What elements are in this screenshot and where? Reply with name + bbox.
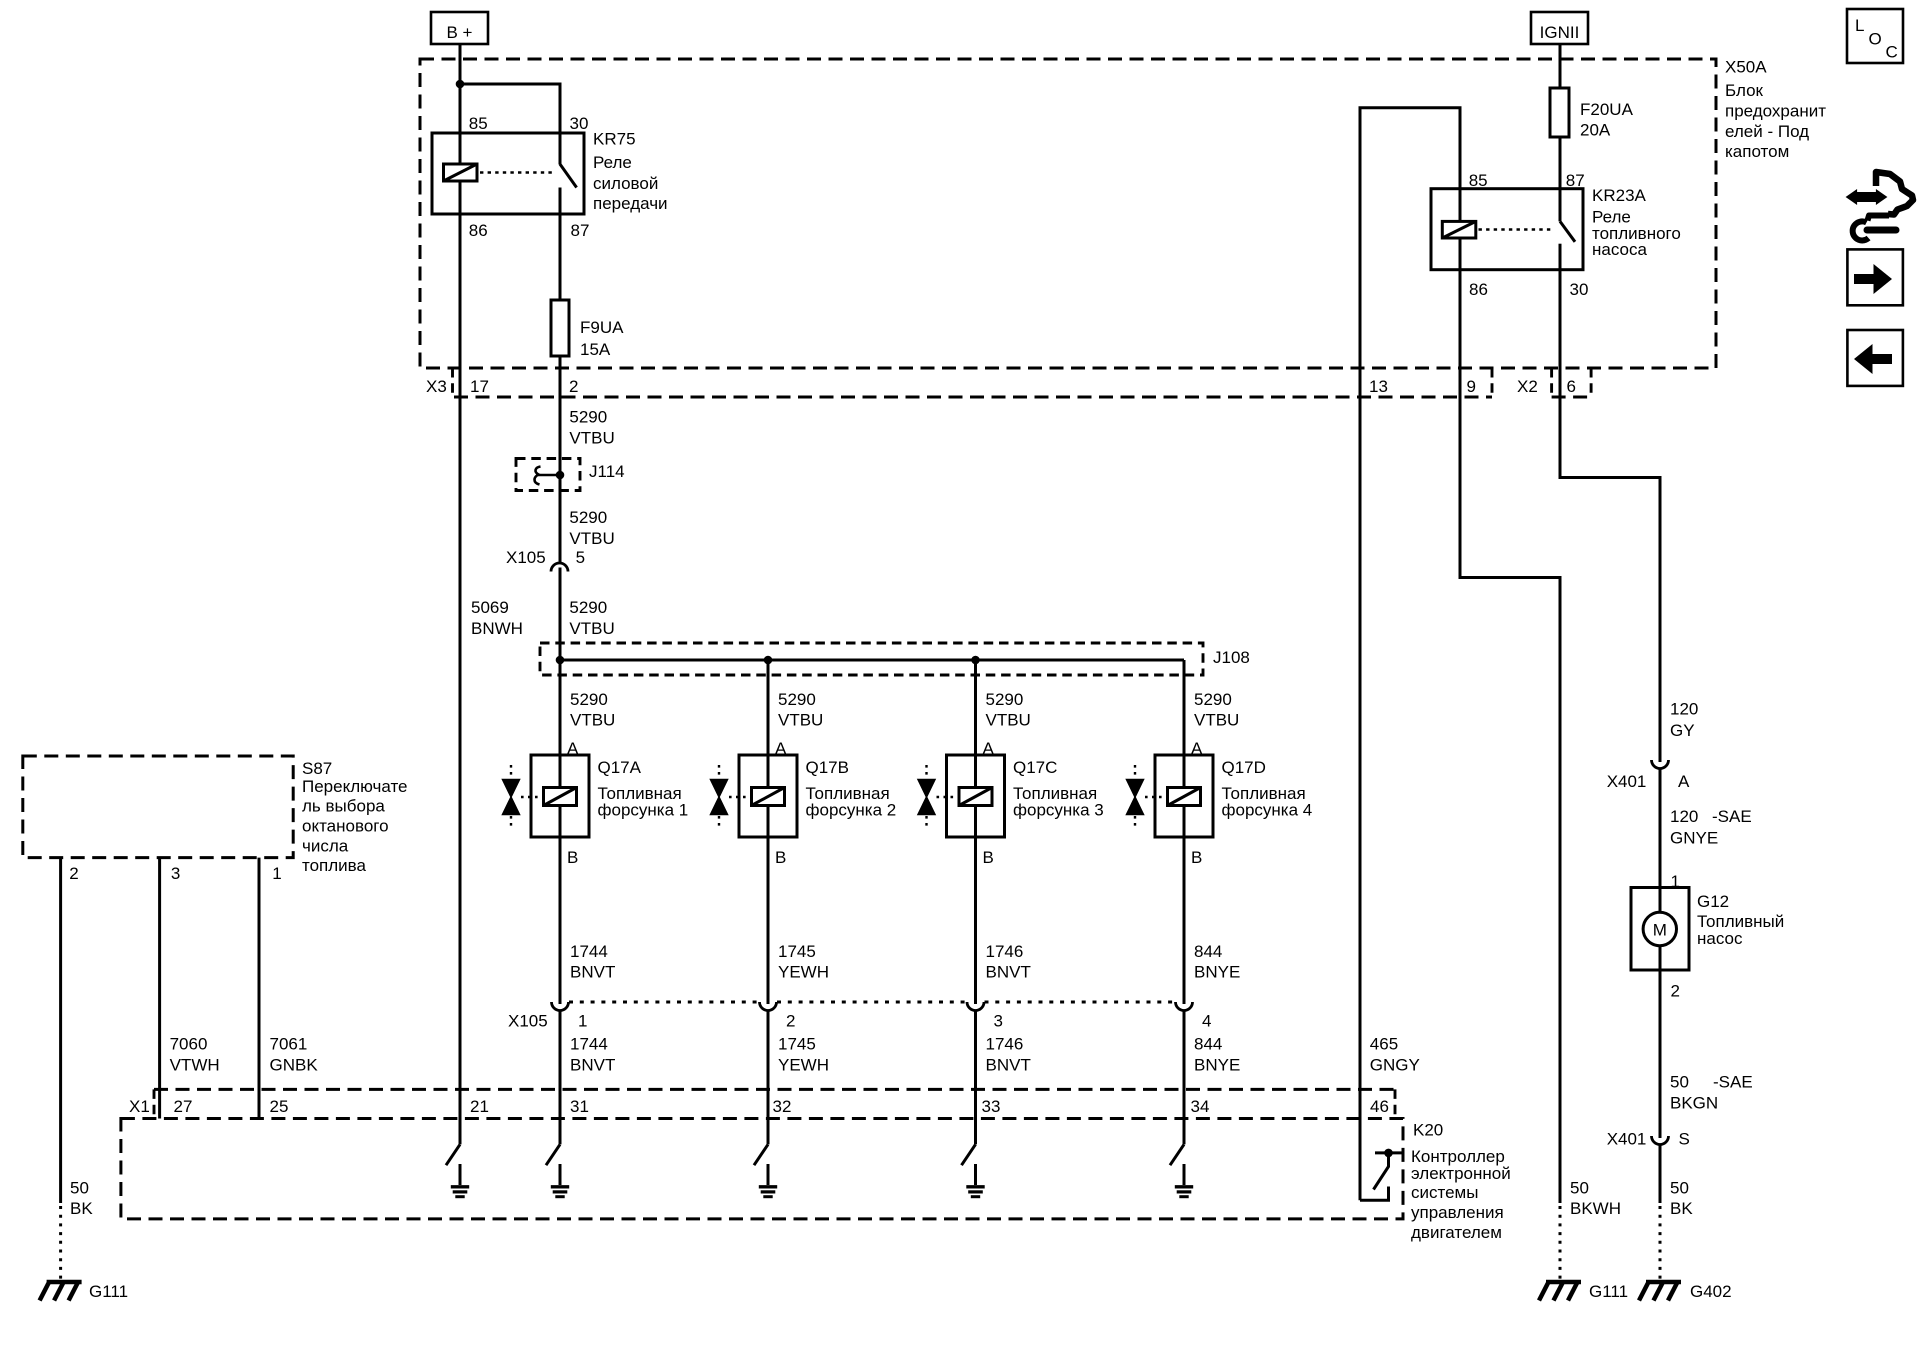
wire X105 pin 2 down to X1 pin 32 into K20 — [767, 1011, 770, 1145]
svg-text:X2: X2 — [1517, 377, 1538, 396]
wire label 465 GNGY — [1370, 1035, 1420, 1075]
Q17B description — [806, 784, 897, 820]
svg-text:2: 2 — [786, 1012, 795, 1031]
controller K20 dashed box — [121, 1119, 1403, 1219]
svg-text:5290: 5290 — [1194, 690, 1232, 709]
svg-text:BNVT: BNVT — [570, 1056, 615, 1075]
svg-text:насоса: насоса — [1592, 240, 1647, 259]
Q17D description — [1222, 784, 1313, 820]
svg-text:33: 33 — [982, 1097, 1001, 1116]
K20 internal ground symbol (x=560) — [551, 1187, 569, 1197]
svg-text:O: O — [1869, 30, 1882, 49]
wire injector Q17C pin B down to X105 — [974, 806, 977, 1005]
svg-text:B +: B + — [447, 23, 473, 42]
svg-text:G111: G111 — [1589, 1282, 1628, 1301]
wire label 1746 BNVT (below X105) — [986, 1035, 1031, 1075]
K20 internal ground symbol (x=460) — [451, 1187, 469, 1197]
S87 description — [302, 777, 408, 875]
wire IGNII down to fuse F20UA — [1559, 44, 1562, 88]
wire X105 pin 1 down to X1 pin 31 into K20 — [559, 1011, 562, 1145]
svg-text:1744: 1744 — [570, 942, 608, 961]
wire label 7061 GNBK — [270, 1035, 319, 1075]
svg-text:5290: 5290 — [569, 598, 607, 617]
svg-text:форсунка 1: форсунка 1 — [598, 801, 689, 820]
svg-text:13: 13 — [1369, 377, 1388, 396]
connector X3 left tick — [451, 368, 454, 397]
forward arrow box — [1847, 249, 1903, 305]
K20 internal ground symbol (x=1184) — [1175, 1187, 1193, 1197]
dotted wire to ground G111 (left) — [59, 1206, 62, 1279]
svg-text:1: 1 — [578, 1012, 587, 1031]
wire J108 to injector Q17B pin A — [767, 660, 770, 788]
svg-text:форсунка 4: форсунка 4 — [1222, 801, 1313, 820]
X105 connector face dotted line — [569, 1001, 1175, 1004]
svg-text:BNVT: BNVT — [570, 962, 615, 981]
wire label 844 BNYE (above X105) — [1194, 942, 1240, 981]
svg-text:87: 87 — [571, 221, 590, 240]
wire J108 bus — [560, 659, 1184, 662]
svg-text:BKGN: BKGN — [1670, 1094, 1718, 1113]
svg-text:X3: X3 — [426, 377, 447, 396]
wire S87 pin 2 to ground G111 — [59, 858, 62, 1203]
K20 internal switch to ground (x=768) — [754, 1144, 768, 1185]
wire label 844 BNYE (below X105) — [1194, 1035, 1240, 1075]
svg-text:27: 27 — [174, 1097, 193, 1116]
wire injector Q17B pin B down to X105 — [767, 806, 770, 1005]
svg-text:BNYE: BNYE — [1194, 1056, 1240, 1075]
fuse block X50A (underhood) dashed outline — [420, 59, 1716, 368]
svg-text:BK: BK — [70, 1199, 93, 1218]
relay KR23A switch arm — [1560, 221, 1575, 241]
svg-text:30: 30 — [1570, 280, 1589, 299]
svg-text:21: 21 — [470, 1097, 489, 1116]
svg-text:5290: 5290 — [569, 408, 607, 427]
svg-text:B: B — [567, 848, 578, 867]
wire J108 to injector Q17C pin A — [974, 660, 977, 788]
svg-text:VTBU: VTBU — [570, 710, 615, 729]
svg-text:BNVT: BNVT — [986, 1056, 1031, 1075]
inline connector X105 pin 4 (arc) — [1176, 1002, 1193, 1011]
wire label 5290 VTBU (above J114) — [569, 408, 614, 448]
K20 internal switch to ground (x=560) — [546, 1144, 560, 1185]
wire KR75 pin 87 down to fuse F9UA — [559, 188, 562, 301]
svg-text:K20: K20 — [1413, 1121, 1443, 1140]
svg-text:Блок: Блок — [1725, 81, 1764, 100]
svg-text:46: 46 — [1370, 1097, 1389, 1116]
KR75 description — [593, 153, 668, 213]
fuel injector Q17C — [918, 755, 1005, 837]
svg-text:X401: X401 — [1607, 772, 1647, 791]
ground G111 (right) — [1539, 1282, 1581, 1301]
dotted wire to ground G111 (right) — [1559, 1206, 1562, 1279]
svg-text:32: 32 — [773, 1097, 792, 1116]
svg-text:VTBU: VTBU — [569, 429, 614, 448]
inline connector X105 pin 1 (arc) — [552, 1002, 569, 1011]
svg-text:GNYE: GNYE — [1670, 829, 1718, 848]
svg-text:50: 50 — [1570, 1179, 1589, 1198]
svg-text:VTBU: VTBU — [778, 710, 823, 729]
svg-text:7060: 7060 — [170, 1035, 208, 1054]
relay KR23A coil-to-switch dotted link — [1479, 228, 1553, 231]
fuse F9UA — [551, 300, 569, 356]
wire X3 pin 13 down to K20 pin 46 — [1359, 368, 1362, 1200]
svg-text:50: 50 — [1670, 1073, 1689, 1092]
svg-text:844: 844 — [1194, 1035, 1222, 1054]
svg-text:17: 17 — [470, 377, 489, 396]
wire KR23A pin 86 down through X3 pin 9, jog right, down to ground — [1460, 238, 1560, 1203]
svg-text:капотом: капотом — [1725, 142, 1789, 161]
svg-text:3: 3 — [994, 1012, 1003, 1031]
svg-text:M: M — [1653, 921, 1667, 940]
svg-text:85: 85 — [1469, 171, 1488, 190]
wire X105 pin 3 down to X1 pin 33 into K20 — [974, 1011, 977, 1145]
wire label 7060 VTWH — [170, 1035, 220, 1075]
svg-text:2: 2 — [1671, 982, 1680, 1001]
relay KR75 coil-to-switch dotted link — [480, 171, 552, 174]
inline connector X401 pin A (arc) — [1652, 760, 1669, 769]
K20 internal switch to ground (x=1184) — [1170, 1144, 1184, 1185]
ground G111 (left) — [40, 1282, 82, 1301]
harness navigation icon — [1846, 172, 1913, 240]
svg-text:GY: GY — [1670, 721, 1695, 740]
svg-text:85: 85 — [469, 114, 488, 133]
wire label 1744 BNVT (above X105) — [570, 942, 615, 981]
relay KR23A box — [1431, 189, 1583, 270]
splice J108 dashed box — [540, 643, 1203, 675]
svg-text:Переключате: Переключате — [302, 777, 408, 796]
svg-text:предохранит: предохранит — [1725, 102, 1826, 121]
svg-text:силовой: силовой — [593, 174, 658, 193]
svg-text:F9UA: F9UA — [580, 318, 624, 337]
svg-text:ль выбора: ль выбора — [302, 797, 385, 816]
relay KR23A coil — [1442, 221, 1476, 238]
wire injector Q17D pin B down to X105 — [1183, 806, 1186, 1005]
svg-text:1: 1 — [272, 864, 281, 883]
svg-text:YEWH: YEWH — [778, 1056, 829, 1075]
svg-text:15A: 15A — [580, 340, 611, 359]
svg-text:X105: X105 — [506, 548, 546, 567]
wire label 5290 VTBU (above J108) — [569, 598, 614, 638]
junction dot J108 at injector 1 — [556, 656, 565, 665]
svg-text:86: 86 — [1469, 280, 1488, 299]
svg-text:GNGY: GNGY — [1370, 1056, 1420, 1075]
svg-text:120: 120 — [1670, 700, 1698, 719]
svg-text:1746: 1746 — [986, 942, 1024, 961]
svg-text:J114: J114 — [589, 462, 625, 481]
svg-text:34: 34 — [1191, 1097, 1210, 1116]
connector X2 box — [1552, 368, 1592, 397]
svg-text:5290: 5290 — [569, 508, 607, 527]
connector strip X1 top line — [154, 1088, 1395, 1091]
splice J114 symbol — [535, 467, 565, 485]
wire label 5290 VTBU (injector Q17D) — [1194, 690, 1239, 729]
svg-text:31: 31 — [570, 1097, 589, 1116]
svg-text:5069: 5069 — [471, 598, 509, 617]
svg-text:5290: 5290 — [778, 690, 816, 709]
relay KR75 coil — [444, 164, 478, 181]
svg-text:3: 3 — [171, 864, 180, 883]
Q17A description — [598, 784, 689, 820]
svg-text:октанового: октанового — [302, 817, 389, 836]
svg-text:1745: 1745 — [778, 942, 816, 961]
svg-text:465: 465 — [1370, 1035, 1398, 1054]
svg-text:насос: насос — [1697, 929, 1743, 948]
svg-text:BNYE: BNYE — [1194, 962, 1240, 981]
svg-text:YEWH: YEWH — [778, 962, 829, 981]
wire label 120 GY — [1670, 700, 1698, 741]
svg-text:Реле: Реле — [593, 153, 632, 172]
wire label 50 BKGN -SAE — [1670, 1073, 1753, 1113]
switch S87 dashed box (octane selector) — [23, 756, 293, 858]
wire X105 pin 4 down to X1 pin 34 into K20 — [1183, 1011, 1186, 1145]
wire label 5290 VTBU (injector Q17B) — [778, 690, 823, 729]
svg-text:Q17B: Q17B — [806, 758, 849, 777]
svg-text:двигателем: двигателем — [1411, 1223, 1502, 1242]
svg-text:BNVT: BNVT — [986, 962, 1031, 981]
svg-text:1745: 1745 — [778, 1035, 816, 1054]
wire KR23A pin 30 down through X2 pin 6, jog right to fuel pump feed — [1560, 270, 1660, 762]
svg-text:B: B — [1191, 848, 1202, 867]
K20 internal ground symbol (x=975.5) — [966, 1187, 984, 1197]
K20 internal ground symbol (x=768) — [759, 1187, 777, 1197]
svg-text:50: 50 — [1670, 1179, 1689, 1198]
svg-text:S87: S87 — [302, 759, 332, 778]
svg-text:5290: 5290 — [986, 690, 1024, 709]
fuse F20UA — [1550, 88, 1569, 137]
svg-text:F20UA: F20UA — [1580, 100, 1634, 119]
svg-text:2: 2 — [69, 864, 78, 883]
wire label 1745 YEWH (above X105) — [778, 942, 829, 981]
svg-text:1744: 1744 — [570, 1035, 608, 1054]
svg-text:1746: 1746 — [986, 1035, 1024, 1054]
dotted wire to ground G402 — [1659, 1206, 1662, 1279]
power node B+ — [431, 12, 488, 44]
wire injector Q17A pin B down to X105 — [559, 806, 562, 1005]
svg-text:6: 6 — [1567, 377, 1576, 396]
wire J108 to injector Q17D pin A — [1183, 660, 1186, 788]
wire label 50 BK (right) — [1670, 1179, 1693, 1219]
LOC legend box — [1847, 9, 1903, 63]
svg-text:50: 50 — [70, 1179, 89, 1198]
power node IGNII — [1531, 12, 1588, 44]
svg-text:C: C — [1886, 43, 1898, 62]
K20 fuel pump relay driver switch (pin 46) — [1360, 1149, 1403, 1201]
svg-text:-SAE: -SAE — [1713, 1073, 1753, 1092]
svg-text:Q17D: Q17D — [1222, 758, 1266, 777]
svg-text:9: 9 — [1467, 377, 1476, 396]
svg-text:L: L — [1855, 16, 1864, 35]
wire label 50 BKWH — [1570, 1179, 1621, 1219]
svg-text:форсунка 2: форсунка 2 — [806, 801, 897, 820]
svg-text:X105: X105 — [508, 1012, 548, 1031]
svg-text:VTBU: VTBU — [569, 529, 614, 548]
inline connector X105 pin 2 (arc) — [760, 1002, 777, 1011]
connector X1 right tick — [1394, 1089, 1397, 1118]
ground G402 — [1639, 1282, 1681, 1301]
svg-text:Q17C: Q17C — [1013, 758, 1057, 777]
wire X401 A to fuel pump G12 — [1659, 769, 1662, 914]
svg-text:4: 4 — [1202, 1012, 1211, 1031]
svg-text:передачи: передачи — [593, 194, 668, 213]
svg-text:J108: J108 — [1213, 648, 1250, 667]
svg-text:X1: X1 — [129, 1097, 150, 1116]
wire label 5290 VTBU (injector Q17C) — [986, 690, 1031, 729]
inline connector X105 pin 3 (arc) — [967, 1002, 984, 1011]
relay KR75 switch arm — [560, 164, 577, 187]
wire label 1744 BNVT (below X105) — [570, 1035, 615, 1075]
fuel injector Q17B — [711, 755, 798, 837]
inline connector X105 pin 5 (arc) — [551, 563, 568, 571]
K20 internal switch to ground (x=975.5) — [962, 1144, 976, 1185]
svg-text:87: 87 — [1566, 171, 1585, 190]
wire F20UA to KR23A pin 87 — [1559, 137, 1562, 221]
relay KR75 pin 87 stub — [559, 188, 562, 215]
relay KR23A pin 30 stub — [1559, 244, 1562, 270]
wire F9UA down through X3 pin 2 to X105 pin 5 — [559, 356, 562, 564]
svg-text:управления: управления — [1411, 1203, 1504, 1222]
inline connector X401 pin S (arc) — [1652, 1136, 1669, 1145]
svg-text:системы: системы — [1411, 1183, 1478, 1202]
svg-text:A: A — [1678, 772, 1690, 791]
connector X1 left tick — [153, 1089, 156, 1118]
wire X401 S down to ground G402 — [1659, 1145, 1662, 1204]
svg-text:электронной: электронной — [1411, 1164, 1511, 1183]
X50A description text — [1725, 81, 1826, 161]
svg-text:X401: X401 — [1607, 1130, 1647, 1149]
connector strip X3 bottom line — [454, 396, 1492, 399]
K20 description — [1411, 1147, 1511, 1242]
svg-text:Q17A: Q17A — [598, 758, 642, 777]
svg-text:BKWH: BKWH — [1570, 1199, 1621, 1218]
junction dot J108 at injector 3 — [971, 656, 980, 665]
svg-text:топлива: топлива — [302, 856, 367, 875]
fuel pump G12 — [1631, 888, 1689, 971]
Q17C description — [1013, 784, 1104, 820]
junction dot on B+ wire — [456, 80, 465, 89]
svg-text:5: 5 — [576, 548, 585, 567]
back arrow box — [1847, 330, 1903, 386]
wire label 5290 VTBU (below J114) — [569, 508, 614, 548]
wire label 50 BK (left) — [70, 1179, 93, 1219]
svg-text:G111: G111 — [89, 1282, 128, 1301]
connector X3 right tick — [1491, 368, 1494, 397]
wire B+ down to KR75 coil (pin 85) — [459, 44, 462, 164]
wire S87 pin 3 to X1 pin 27 — [158, 858, 161, 1119]
svg-text:BNWH: BNWH — [471, 619, 523, 638]
svg-text:5290: 5290 — [570, 690, 608, 709]
svg-text:VTBU: VTBU — [1194, 710, 1239, 729]
G12 description — [1697, 912, 1784, 948]
svg-text:-SAE: -SAE — [1712, 807, 1752, 826]
svg-text:VTBU: VTBU — [986, 710, 1031, 729]
svg-text:86: 86 — [469, 221, 488, 240]
svg-text:KR75: KR75 — [593, 130, 636, 149]
svg-text:G12: G12 — [1697, 892, 1729, 911]
svg-text:G402: G402 — [1690, 1282, 1732, 1301]
svg-text:IGNII: IGNII — [1540, 23, 1580, 42]
svg-text:X50A: X50A — [1725, 58, 1767, 77]
svg-text:30: 30 — [570, 114, 589, 133]
relay KR75 box — [432, 133, 584, 214]
wire S87 pin 1 to X1 pin 25 — [258, 858, 261, 1119]
svg-text:елей - Под: елей - Под — [1725, 122, 1809, 141]
wire label 120 GNYE -SAE — [1670, 807, 1752, 848]
wire branch from junction to KR75 pin 30 — [460, 84, 560, 165]
KR23A description — [1592, 208, 1681, 260]
svg-text:VTWH: VTWH — [170, 1056, 220, 1075]
svg-text:BK: BK — [1670, 1199, 1693, 1218]
svg-text:B: B — [775, 848, 786, 867]
splice J114 dashed box — [516, 459, 580, 491]
fuel injector Q17A — [503, 755, 590, 837]
wire label 1746 BNVT (above X105) — [986, 942, 1031, 981]
svg-text:2: 2 — [569, 377, 578, 396]
svg-text:числа: числа — [302, 837, 349, 856]
fuel injector Q17D — [1127, 755, 1214, 837]
K20 internal switch to ground (x=460) — [446, 1144, 460, 1185]
svg-text:120: 120 — [1670, 807, 1698, 826]
svg-text:7061: 7061 — [270, 1035, 308, 1054]
svg-text:B: B — [983, 848, 994, 867]
svg-text:GNBK: GNBK — [270, 1056, 319, 1075]
svg-text:S: S — [1679, 1130, 1690, 1149]
wire KR23A pin 85 up and over to X3 pin 13 — [1360, 108, 1460, 368]
svg-text:844: 844 — [1194, 942, 1222, 961]
svg-text:VTBU: VTBU — [569, 619, 614, 638]
svg-text:KR23A: KR23A — [1592, 186, 1647, 205]
wire label 5290 VTBU (injector Q17A) — [570, 690, 615, 729]
svg-text:20A: 20A — [1580, 121, 1611, 140]
wire X105 pin 5 down to splice J108 — [559, 568, 562, 788]
wire G12 pin 2 down to X401 S — [1659, 946, 1662, 1138]
svg-text:форсунка 3: форсунка 3 — [1013, 801, 1104, 820]
junction dot J108 at injector 2 — [764, 656, 773, 665]
wire KR75 pin 86 down to X1 pin 21 — [459, 181, 462, 1144]
wire label 5069 BNWH — [471, 598, 523, 638]
svg-text:25: 25 — [270, 1097, 289, 1116]
wire label 1745 YEWH (below X105) — [778, 1035, 829, 1075]
